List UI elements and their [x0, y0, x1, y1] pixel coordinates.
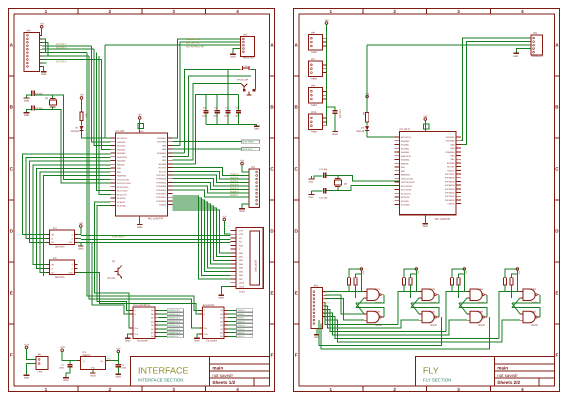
- wire caps bottom rail to ground: [206, 124, 257, 126]
- svg-text:RC4/SDI: RC4/SDI: [401, 200, 409, 202]
- svg-text:IC2D: IC2D: [430, 311, 435, 314]
- svg-text:VSS: VSS: [239, 230, 243, 232]
- wire crystal top: [52, 95, 54, 99]
- ground below C12: [311, 191, 313, 194]
- svg-text:D1: D1: [76, 127, 79, 130]
- IC1-FLY microcontroller PIC16F877: [399, 131, 456, 214]
- ground below C13: [332, 131, 338, 133]
- wire left 7-wire bus: [22, 154, 110, 234]
- ground below JP1: [24, 374, 30, 376]
- svg-text:RB0/INT: RB0/INT: [117, 164, 125, 166]
- svg-text:PSP5/RD5: PSP5/RD5: [156, 182, 166, 184]
- wire JP11 pin 1: [323, 291, 325, 293]
- svg-text:GND: GND: [230, 56, 235, 59]
- +5V supply VDD of IC1-INT: [138, 117, 141, 120]
- svg-text:KP103_MP: KP103_MP: [237, 79, 248, 81]
- svg-text:DE: DE: [51, 272, 54, 274]
- column ticks and numbers: [362, 9, 364, 15]
- svg-text:BUS-DATA: BUS-DATA: [203, 304, 214, 307]
- svg-text:C11 30p: C11 30p: [319, 168, 327, 170]
- svg-text:QE: QE: [220, 325, 223, 327]
- wire MCLR to JP5: [367, 44, 531, 46]
- svg-text:DATA-3: DATA-3: [238, 321, 245, 323]
- capacitor C13 100n: [327, 107, 336, 110]
- node flag ADDRESS-4: [158, 324, 167, 326]
- connector JP10: [308, 114, 322, 130]
- svg-text:C6: C6: [214, 107, 217, 109]
- svg-text:ROBE-1: ROBE-1: [230, 194, 239, 197]
- +5V supply above R1: [80, 97, 83, 100]
- svg-text:GND: GND: [239, 210, 244, 213]
- svg-text:RC6/TX: RC6/TX: [159, 171, 166, 173]
- wire to flag BUS-ACK: [172, 148, 241, 150]
- wire S1 row: [185, 70, 241, 153]
- svg-text:RC2/CCP1: RC2/CCP1: [117, 194, 127, 196]
- svg-text:JP11: JP11: [314, 285, 319, 288]
- svg-text:C2: C2: [121, 364, 124, 366]
- svg-text:QH: QH: [151, 336, 154, 338]
- svg-text:+5V: +5V: [79, 94, 83, 97]
- svg-text:OSC1/CLKIN: OSC1/CLKIN: [117, 179, 129, 181]
- node flag DATA-7: [228, 335, 237, 337]
- capacitor C2 100n: [117, 361, 119, 364]
- svg-text:PGM/RB3: PGM/RB3: [157, 152, 166, 154]
- IC1-INT right pin stubs and names: [168, 137, 173, 139]
- wire latch cross IC2C: [411, 295, 439, 303]
- +5V supply at IC6A: [463, 268, 465, 270]
- svg-text:PSP1/RD1: PSP1/RD1: [156, 197, 166, 199]
- node flag DATA-0: [228, 309, 237, 311]
- svg-text:D: D: [555, 229, 558, 234]
- column ticks and numbers: [77, 9, 79, 15]
- wire R pulldowns IC2A: [348, 285, 350, 292]
- ground at JP4: [239, 208, 245, 210]
- wire D1 to MCLR: [82, 131, 111, 138]
- svg-text:PSP2/RD2: PSP2/RD2: [445, 192, 455, 194]
- svg-text:GND: GND: [423, 225, 428, 228]
- svg-text:+5V: +5V: [79, 222, 83, 225]
- sheet outer border: [9, 9, 275, 392]
- svg-text:IC3: IC3: [82, 351, 86, 354]
- svg-text:GND: GND: [332, 133, 337, 136]
- svg-text:E: E: [270, 291, 273, 296]
- wire D4 to chip MCLR: [367, 131, 399, 137]
- svg-text:+5V: +5V: [240, 159, 244, 162]
- svg-text:main: main: [212, 366, 223, 371]
- wire IC4 to BUS-ADDRESS B: [78, 243, 130, 315]
- svg-text:ADDRESS-1: ADDRESS-1: [168, 313, 180, 315]
- svg-text:Q1: Q1: [45, 97, 48, 100]
- +12V supply at JP1: [25, 346, 28, 349]
- resistor R at IC6A: [451, 278, 454, 285]
- wire JP11 row1 to IC2A: [325, 291, 364, 293]
- svg-text:PSP4/RD4: PSP4/RD4: [445, 185, 455, 187]
- wire latch cross IC2A: [356, 295, 384, 303]
- svg-text:DB7: DB7: [239, 278, 243, 280]
- svg-text:DB1: DB1: [239, 256, 243, 258]
- svg-text:PSP5/RD5: PSP5/RD5: [445, 181, 455, 183]
- svg-text:B: B: [134, 313, 135, 315]
- svg-text:THRO-0: THRO-0: [230, 173, 239, 176]
- capacitor C3 33p: [31, 91, 33, 96]
- svg-text:RA5/AN4: RA5/AN4: [117, 160, 125, 162]
- svg-text:PSP7/RD7: PSP7/RD7: [445, 173, 455, 175]
- svg-text:A: A: [10, 43, 13, 48]
- svg-text:RA0/AN0: RA0/AN0: [117, 141, 125, 143]
- svg-text:C8: C8: [236, 107, 239, 109]
- svg-text:GND: GND: [78, 247, 83, 250]
- svg-text:B: B: [270, 105, 273, 110]
- svg-text:THRO: THRO: [311, 78, 318, 81]
- svg-text:TX/RC6: TX/RC6: [447, 203, 454, 205]
- svg-text:OSC2/CLKOUT: OSC2/CLKOUT: [401, 181, 415, 183]
- svg-text:+5V: +5V: [116, 347, 120, 350]
- svg-text:RC1/T1OSI: RC1/T1OSI: [117, 190, 127, 192]
- svg-text:LPO: LPO: [38, 371, 43, 374]
- wire feeds IC6C: [499, 292, 520, 339]
- wire R pulldowns IC6C: [504, 285, 506, 292]
- svg-text:ADDRESS-3: ADDRESS-3: [168, 321, 180, 323]
- svg-text:D4: D4: [361, 127, 364, 130]
- svg-text:DB3: DB3: [239, 263, 243, 265]
- svg-text:RS: RS: [239, 241, 242, 243]
- svg-text:+5V: +5V: [423, 115, 427, 118]
- svg-text:ADDRESS-2: ADDRESS-2: [168, 317, 180, 319]
- wire JP11 pin 8: [323, 315, 325, 317]
- svg-text:MCLR/PROG-INT: MCLR/PROG-INT: [186, 46, 204, 49]
- svg-text:RA1/AN1: RA1/AN1: [401, 144, 409, 146]
- pins BUS-DATA inputs: [199, 309, 202, 311]
- wire IC4 outputs to LCD bus: [78, 234, 81, 236]
- wire MCLR net to JP3: [105, 44, 241, 46]
- svg-text:RB1: RB1: [451, 159, 455, 161]
- svg-text:QB: QB: [220, 313, 223, 315]
- wire vertical bus v2 to BUS-DATA CLK: [89, 56, 202, 328]
- svg-text:3: 3: [457, 387, 460, 392]
- nand gate IC6A 7400N: [470, 289, 482, 301]
- svg-text:S1: S1: [245, 65, 248, 68]
- title block: [415, 356, 554, 386]
- wire JP11 pin 7: [323, 312, 325, 314]
- svg-text:+5V: +5V: [362, 271, 364, 275]
- wire left bus to LCD control: [81, 234, 231, 236]
- svg-text:ADDRESS-5: ADDRESS-5: [168, 328, 180, 330]
- svg-text:100n: 100n: [59, 367, 64, 369]
- svg-text:E: E: [555, 291, 558, 296]
- node flag DATA-1: [228, 313, 237, 315]
- svg-text:RC0/T1OSO: RC0/T1OSO: [401, 185, 412, 187]
- svg-text:RB6/CLK-INT: RB6/CLK-INT: [186, 38, 200, 41]
- nand gate IC6D 7400N: [523, 311, 535, 323]
- svg-text:+5V: +5V: [222, 215, 226, 218]
- svg-text:3: 3: [172, 387, 175, 392]
- svg-text:10k: 10k: [362, 112, 364, 116]
- svg-text:3: 3: [172, 10, 175, 15]
- wire RB6 to JP3: [172, 39, 240, 138]
- svg-text:C: C: [294, 167, 297, 172]
- svg-text:DB0: DB0: [239, 252, 243, 254]
- IC BUS-ADDRESS 74LS164N: [133, 307, 155, 338]
- nand gate IC2B 7400N: [367, 311, 379, 323]
- connector JP9: [308, 87, 322, 103]
- svg-text:CONTRAST: CONTRAST: [112, 235, 125, 238]
- svg-text:RLED-3: RLED-3: [230, 187, 238, 190]
- ground VSS IC1-FLY: [424, 215, 426, 224]
- wire +5V rail IC6A: [452, 269, 464, 278]
- svg-text:1: 1: [45, 10, 48, 15]
- nand gate IC2C 7400N: [422, 289, 434, 301]
- wire to flag BUS-WRM: [172, 141, 241, 143]
- svg-text:GND: GND: [90, 375, 95, 378]
- connector JP6: [308, 34, 322, 50]
- svg-text:3: 3: [457, 10, 460, 15]
- wire chip RC5 to BUS-ADDRESS A: [97, 206, 133, 311]
- svg-text:INT/RB0: INT/RB0: [158, 163, 166, 165]
- svg-text:RC6/TX: RC6/TX: [447, 170, 454, 172]
- svg-text:DE: DE: [51, 242, 54, 244]
- svg-text:FLY: FLY: [423, 366, 439, 376]
- resistor R1 10k: [80, 112, 83, 121]
- connector JP11: [311, 288, 323, 329]
- wire C11 to OSC1: [326, 175, 399, 181]
- node flag DATA-5: [228, 328, 237, 330]
- svg-text:PROG-INT: PROG-INT: [243, 57, 254, 60]
- svg-text:CLR: CLR: [134, 333, 138, 335]
- svg-text:RC1/T1OSI: RC1/T1OSI: [401, 189, 411, 191]
- wire JP2 stub pins: [42, 62, 47, 64]
- IC1-FLY left pins: [395, 136, 400, 138]
- svg-text:IC1-INT: IC1-INT: [116, 130, 125, 133]
- svg-text:GND: GND: [69, 272, 73, 274]
- svg-text:Q2: Q2: [112, 260, 115, 263]
- svg-text:not saved!: not saved!: [212, 373, 232, 378]
- svg-text:7400N: 7400N: [375, 324, 382, 327]
- svg-text:RB2: RB2: [162, 156, 166, 158]
- svg-text:VI: VI: [83, 360, 85, 362]
- IC1-INT left pin stubs and names: [111, 137, 116, 139]
- svg-text:CLK: CLK: [134, 327, 138, 329]
- svg-text:DI: DI: [51, 268, 53, 270]
- svg-text:CLK: CLK: [204, 327, 208, 329]
- wire +5V rail IC2A: [349, 269, 361, 278]
- svg-text:PSP3/RD3: PSP3/RD3: [445, 188, 455, 190]
- svg-text:+12V: +12V: [59, 346, 65, 349]
- svg-text:F: F: [271, 353, 274, 358]
- svg-text:GND: GND: [125, 340, 130, 343]
- svg-text:4: 4: [521, 387, 524, 392]
- wire JP11 row3 to IC2B input2: [325, 299, 364, 321]
- resistor R2 at IC6C: [510, 278, 513, 285]
- ground below C2: [116, 373, 122, 375]
- wire vertical bus v6 to chip RC1: [99, 56, 111, 194]
- resistor R at IC2A: [348, 278, 351, 285]
- svg-text:F: F: [295, 353, 298, 358]
- svg-text:PGC/RB6: PGC/RB6: [446, 140, 455, 142]
- resistor R5 10k: [366, 112, 369, 121]
- op-amp IC1-INT microcontroller PIC16F877: [116, 133, 168, 216]
- svg-text:SN75176: SN75176: [55, 246, 65, 249]
- svg-text:BUS-ADDRESS: BUS-ADDRESS: [134, 304, 151, 307]
- pins BUS-ADDRESS inputs: [130, 309, 133, 311]
- svg-text:RC5/SDO: RC5/SDO: [117, 205, 126, 207]
- wire latch cross IC6C: [512, 295, 540, 303]
- wire JP11 pin 4: [323, 301, 325, 303]
- svg-text:GND: GND: [254, 128, 259, 131]
- svg-text:VO: VO: [239, 237, 242, 239]
- svg-text:B: B: [72, 268, 73, 270]
- svg-text:RLED-2: RLED-2: [230, 184, 238, 187]
- svg-text:PSP2/RD2: PSP2/RD2: [156, 193, 166, 195]
- svg-text:C12 30p: C12 30p: [319, 197, 327, 199]
- svg-text:R1: R1: [85, 114, 87, 117]
- +5V supply at JP2: [40, 26, 43, 29]
- svg-text:LEDK: LEDK: [239, 286, 244, 288]
- svg-text:INTERFACE: INTERFACE: [138, 366, 189, 376]
- svg-text:PIC-16F877P: PIC-16F877P: [148, 218, 163, 221]
- svg-text:INT/RB0: INT/RB0: [447, 162, 455, 164]
- svg-text:GND: GND: [309, 196, 314, 198]
- svg-text:ADDRESS-0: ADDRESS-0: [168, 310, 180, 312]
- svg-text:GND: GND: [69, 242, 73, 244]
- svg-text:THRO: THRO: [311, 131, 318, 134]
- svg-text:ADDRESS-7: ADDRESS-7: [168, 336, 180, 338]
- svg-text:OSC2/CLKOUT: OSC2/CLKOUT: [117, 182, 131, 184]
- svg-text:DATA-6: DATA-6: [238, 332, 245, 334]
- +5V supply at IC2C: [415, 268, 417, 270]
- ground at JP5: [514, 52, 520, 54]
- svg-text:JP1: JP1: [38, 354, 42, 357]
- svg-text:CLR: CLR: [204, 333, 208, 335]
- svg-text:DATA-5: DATA-5: [238, 328, 245, 330]
- wire JP5 MCLR net: [366, 45, 368, 112]
- svg-text:PSP4/RD4: PSP4/RD4: [156, 186, 166, 188]
- svg-text:+5V: +5V: [417, 271, 419, 275]
- svg-text:DI: DI: [51, 238, 53, 240]
- svg-text:ADDRESS-6: ADDRESS-6: [168, 332, 180, 334]
- svg-text:QD: QD: [220, 321, 223, 323]
- svg-text:VDD: VDD: [239, 234, 243, 236]
- svg-text:QA: QA: [151, 310, 154, 312]
- svg-text:not saved!: not saved!: [497, 373, 517, 378]
- resistor R at IC6C: [504, 278, 507, 285]
- svg-text:DB4: DB4: [239, 267, 243, 269]
- IC BUS-DATA 74LS164N: [203, 307, 225, 338]
- svg-text:IC4: IC4: [53, 227, 57, 230]
- connector JP3 programming header: [241, 37, 255, 57]
- svg-text:RB3/PGM: RB3/PGM: [401, 174, 410, 176]
- svg-text:RC4/SDI: RC4/SDI: [117, 201, 125, 203]
- wire extra run 2: [321, 317, 490, 349]
- +5V supply VDD IC1-FLY: [424, 118, 427, 121]
- svg-text:Sheets 2/2: Sheets 2/2: [497, 380, 520, 385]
- svg-text:IC2B: IC2B: [375, 311, 380, 314]
- +5V supply at JP4: [241, 162, 244, 165]
- wire C12 to OSC2: [326, 186, 399, 191]
- wire feeds IC6A: [446, 292, 467, 332]
- svg-text:PGM/RB3: PGM/RB3: [445, 151, 454, 153]
- svg-text:GND: GND: [24, 114, 29, 117]
- ground caps rail: [254, 125, 260, 127]
- wire latch cross IC6A: [459, 295, 487, 303]
- crystal Q4: [334, 180, 341, 185]
- sheet inner border: [299, 14, 555, 386]
- ground at JP3: [230, 53, 236, 55]
- svg-text:GND: GND: [91, 367, 95, 369]
- wire MCLR to JP3: [104, 45, 106, 138]
- svg-text:RA2/AN2: RA2/AN2: [117, 149, 125, 151]
- svg-text:1N4148: 1N4148: [356, 130, 364, 133]
- svg-text:PIC-16F877P: PIC-16F877P: [435, 218, 450, 221]
- connector JP2: [24, 33, 39, 72]
- svg-text:RC5/SDO: RC5/SDO: [401, 204, 410, 206]
- resistor R2 at IC2A: [354, 278, 357, 285]
- wire R pulldowns IC2C: [403, 285, 405, 292]
- svg-text:GND: GND: [309, 181, 314, 183]
- svg-text:2: 2: [109, 387, 112, 392]
- wire vertical bus v1 to BUS-DATA A: [87, 53, 203, 311]
- svg-text:ADTVR-0: ADTVR-0: [56, 60, 67, 63]
- svg-text:+5V: +5V: [138, 114, 142, 117]
- svg-text:RO: RO: [51, 264, 54, 266]
- wire +5V rail IC6C: [505, 269, 517, 278]
- connector JP5 programming header: [531, 35, 543, 55]
- svg-text:DB5: DB5: [239, 271, 243, 273]
- node flag ADDRESS-5: [158, 328, 167, 330]
- svg-text:PSP0/RD0: PSP0/RD0: [156, 200, 166, 202]
- wire vertical bus v4 to chip RA1: [94, 49, 111, 145]
- svg-text:TX/RC6: TX/RC6: [159, 204, 166, 206]
- svg-text:RB5: RB5: [162, 145, 166, 147]
- svg-text:RA3/AN3: RA3/AN3: [401, 151, 409, 153]
- svg-text:PSP3/RD3: PSP3/RD3: [156, 189, 166, 191]
- svg-text:GND: GND: [116, 376, 121, 379]
- wire PGC to JP5: [461, 42, 531, 145]
- svg-text:C: C: [10, 167, 13, 172]
- capacitor C6 100n: [216, 95, 218, 110]
- svg-text:F: F: [555, 353, 558, 358]
- svg-text:GND: GND: [513, 55, 518, 58]
- ground VSS of IC1-INT: [139, 216, 141, 224]
- svg-text:A: A: [72, 234, 73, 236]
- svg-text:A: A: [204, 310, 205, 312]
- svg-text:E: E: [295, 291, 298, 296]
- svg-text:PGD/RB7: PGD/RB7: [157, 137, 166, 139]
- ground at BUS-DATA: [197, 334, 199, 338]
- svg-text:D: D: [294, 229, 297, 234]
- svg-text:R/W: R/W: [239, 245, 243, 247]
- svg-text:D: D: [270, 229, 273, 234]
- svg-text:JP3: JP3: [243, 34, 247, 37]
- svg-text:+5V: +5V: [465, 271, 467, 275]
- svg-text:QF: QF: [220, 328, 223, 330]
- IC3 7805TV regulator: [81, 357, 106, 370]
- svg-text:RB5: RB5: [451, 144, 455, 146]
- svg-text:JP7: JP7: [311, 58, 315, 61]
- svg-text:1N4148: 1N4148: [70, 130, 78, 133]
- svg-text:SN75176: SN75176: [55, 276, 65, 279]
- svg-text:RLED-0: RLED-0: [230, 177, 238, 180]
- svg-text:A: A: [555, 43, 558, 48]
- svg-text:ROBE-0: ROBE-0: [230, 191, 239, 194]
- crystal network C12: [323, 188, 325, 193]
- svg-text:QH: QH: [220, 336, 223, 338]
- resistor R2 at IC6A: [457, 278, 460, 285]
- svg-text:RB1: RB1: [117, 167, 121, 169]
- svg-text:+5V: +5V: [40, 23, 44, 26]
- svg-text:RB3/PGM: RB3/PGM: [117, 175, 126, 177]
- svg-text:RB1: RB1: [162, 160, 166, 162]
- svg-text:JP5: JP5: [533, 32, 537, 35]
